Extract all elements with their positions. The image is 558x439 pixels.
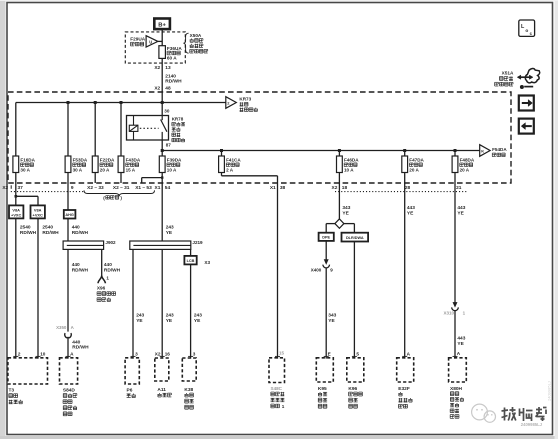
label F43DA [126, 157, 141, 172]
wire F47DA to pin 28 [404, 173, 406, 183]
dotted connector line left [11, 191, 84, 193]
X80H pin A [453, 351, 461, 357]
svg-text:443: 443 [457, 205, 465, 211]
watermark logo circles [472, 404, 496, 422]
svg-text:J902: J902 [105, 240, 116, 245]
wire label 440 RD/WH (3) [72, 340, 89, 351]
svg-text:243: 243 [136, 313, 144, 319]
fuse F16DA 30 A [13, 156, 19, 173]
wire J902 to seat switch [67, 249, 69, 331]
svg-text:YE: YE [194, 318, 201, 324]
svg-text:F43DA: F43DA [126, 157, 141, 162]
wire splice to DLR [344, 224, 355, 233]
svg-text:X400: X400 [311, 268, 322, 273]
blower amplifier T3 (dashed box) [8, 358, 48, 384]
wire drop to F46DA [338, 151, 340, 157]
E32F pin A [402, 351, 410, 356]
svg-text:AHG: AHG [65, 213, 73, 217]
svg-text:YE: YE [407, 210, 414, 216]
wire F22DA to pin X2-33 [94, 173, 96, 183]
label K95 [318, 386, 327, 408]
svg-text:440: 440 [104, 262, 112, 268]
connector X2 pin 31 (unused) [113, 185, 130, 191]
LOC legend icon [519, 20, 535, 36]
label J219 [192, 240, 203, 245]
cigar lighter socket E32F (dashed box) [397, 358, 414, 382]
wire label 243 YE (P6) [136, 313, 144, 324]
svg-text:F48DA: F48DA [460, 157, 475, 162]
label F46DA [344, 157, 359, 172]
svg-text:+VXC: +VXC [33, 213, 43, 218]
K95 pin E [324, 351, 331, 356]
P6 pin 3 [131, 351, 139, 356]
svg-text:10 A: 10 A [167, 168, 177, 173]
label KR73 [239, 97, 257, 112]
svg-text:1: 1 [282, 404, 285, 409]
svg-text:S48C: S48C [271, 386, 283, 391]
label F16DA [20, 157, 35, 172]
junction dots on accessory bus [161, 149, 457, 152]
label K38 [184, 387, 193, 409]
svg-text:X1 – 53: X1 – 53 [135, 185, 152, 191]
wire J902 to X96 [101, 249, 103, 276]
fuse block X51A (large dashed box) [8, 92, 511, 183]
A11 pin X2 16 [155, 351, 171, 356]
svg-text:30 A: 30 A [20, 168, 30, 173]
fuse F48DA 20 A [452, 156, 458, 173]
wire splice to DPE [326, 224, 335, 233]
svg-text:B+: B+ [158, 22, 166, 28]
svg-text:DLR/DWA: DLR/DWA [346, 236, 364, 240]
K38 pin 3 [188, 351, 196, 356]
wire DPE to X400 [325, 241, 327, 260]
brace unused pins [84, 190, 155, 196]
wire label 440 RD/WH (2) [72, 262, 89, 273]
svg-text:X2: X2 [155, 351, 161, 356]
wire AHG to J902 [67, 219, 69, 242]
wire X400 to K95 [325, 268, 327, 359]
svg-text:T3: T3 [9, 387, 15, 393]
fuse F22DA 20 A [92, 156, 98, 173]
wire label 440 RD/WH (4) [104, 262, 121, 273]
svg-text:37: 37 [18, 185, 24, 191]
fusible link F29UA [146, 36, 162, 47]
label F54DA [492, 147, 507, 157]
wire drop to F53DA [67, 103, 69, 157]
fuse F53DA 30 A [65, 156, 71, 173]
off-page arrow left (box) [519, 119, 534, 134]
svg-text:X2: X2 [332, 185, 338, 191]
label F41CA [226, 157, 241, 172]
svg-text:16: 16 [165, 351, 171, 356]
terminal DPE [319, 233, 334, 241]
svg-text:F22DA: F22DA [100, 157, 115, 162]
svg-text:YE: YE [166, 230, 173, 236]
label F39DA [167, 157, 182, 172]
svg-text:F46DA: F46DA [344, 157, 359, 162]
fuse F36UA 60A [159, 46, 166, 59]
splice pack J219 [130, 241, 191, 249]
svg-text:X50A: X50A [190, 33, 202, 38]
connector X96 fork pin 1 [98, 276, 110, 284]
label S48C [271, 386, 285, 409]
svg-text:YE: YE [136, 318, 143, 324]
svg-text:P6: P6 [127, 387, 133, 393]
svg-text:X2: X2 [2, 185, 8, 191]
svg-text:K: K [481, 148, 484, 153]
svg-text:343: 343 [342, 205, 350, 211]
svg-text:X2: X2 [154, 85, 160, 91]
svg-text:U: U [149, 40, 152, 45]
wire label 343 YE [342, 205, 350, 216]
T3 pin 2 [13, 351, 21, 356]
svg-text:RD/WH: RD/WH [20, 230, 37, 236]
label J902 [105, 240, 116, 245]
svg-text:YE: YE [457, 210, 464, 216]
wire drop to F43DA [120, 103, 122, 157]
wire pin28 to E32F [404, 183, 406, 359]
wire label 243 YE (A11) [166, 313, 174, 324]
svg-text:F36UA: F36UA [167, 46, 182, 51]
label X50A engine compartment fuse block [190, 33, 208, 53]
accessory bus wire [162, 150, 480, 152]
svg-text:443: 443 [407, 205, 415, 211]
label X80H [450, 386, 464, 419]
svg-text:YE: YE [328, 318, 335, 324]
svg-text:2140: 2140 [165, 74, 176, 80]
svg-text:20 A: 20 A [460, 168, 470, 173]
fusible link F54DA (triangle) [480, 145, 490, 157]
svg-text:2540: 2540 [20, 225, 31, 231]
svg-text:440: 440 [72, 262, 80, 268]
svg-text:243: 243 [166, 313, 174, 319]
svg-text:F41CA: F41CA [226, 157, 241, 162]
sunroof control module K95 (dashed box) [316, 358, 333, 382]
label X3 [204, 260, 210, 265]
wire drop to F47DA [404, 151, 406, 157]
wire F41CA jog to pin 38 [222, 173, 278, 183]
label (unused) [103, 195, 122, 200]
wire drop to F22DA [94, 103, 96, 157]
diagram number [521, 422, 543, 427]
svg-text:9: 9 [71, 185, 74, 191]
svg-text:38: 38 [280, 185, 286, 191]
console accessory power socket X80H (dashed box) [449, 358, 467, 382]
K96 pin 5 [352, 351, 360, 356]
svg-text:2409985LJ: 2409985LJ [547, 381, 552, 401]
wire label 2140 RD/WH [165, 74, 182, 85]
svg-text:RD/WH: RD/WH [42, 230, 59, 236]
svg-text:20 A: 20 A [409, 168, 419, 173]
fuse F47DA 20 A [402, 156, 408, 173]
svg-text:KR73: KR73 [239, 97, 251, 102]
fuse block X50A (dashed box) [125, 32, 185, 63]
wire 2540 RD/WH to T3 pin 2 [15, 218, 17, 358]
svg-text:X350: X350 [56, 325, 67, 330]
svg-text:LCB: LCB [187, 259, 195, 263]
navigation control module K38 (dashed box) [182, 358, 196, 381]
svg-text:X1: X1 [270, 185, 276, 191]
watermark text jishibang [502, 407, 547, 421]
wire label 443 YE [407, 205, 415, 216]
wire label 443 YE (2) [457, 205, 465, 216]
svg-text:K96: K96 [348, 386, 357, 392]
svg-text:21: 21 [456, 185, 462, 191]
wire pin9 to AHG [67, 183, 69, 210]
label P6 [127, 387, 136, 397]
wire label 2540 RD/WH [20, 225, 37, 236]
relay KR78 retained accessory power relay [127, 116, 169, 141]
svg-text:87: 87 [166, 143, 172, 148]
svg-text:F53DA: F53DA [73, 157, 88, 162]
wire 2540 RD/WH to T3 pin 10 [37, 218, 39, 358]
wire F46DA to pin 18 [338, 173, 340, 183]
label X51A instrument panel fuse block [495, 71, 514, 86]
wire pin54 to J219 [161, 183, 163, 241]
svg-text:X2: X2 [154, 65, 160, 71]
wire F16DA to pin 37 [15, 173, 17, 183]
fuse F39DA 10 A [159, 156, 165, 173]
svg-text:15 A: 15 A [126, 168, 136, 173]
svg-text:DPE: DPE [322, 236, 330, 240]
connector X2 pin 48 [154, 85, 171, 91]
S84D pin A [66, 351, 75, 356]
wire F53DA to pin 9 [67, 173, 69, 183]
wire F39DA to pins 53/54 [142, 173, 164, 183]
wire J219 to LCB [190, 249, 192, 256]
T3 pin 10 [36, 351, 46, 356]
svg-text:J219: J219 [192, 240, 203, 245]
page-link scribble icon [517, 68, 539, 89]
svg-text:60 A: 60 A [167, 56, 177, 61]
wire F43DA to pin X2-31 [120, 173, 122, 183]
terminal V8A +VXC (2) [31, 205, 45, 218]
connector pin 21 [456, 185, 462, 191]
wire pin21 to X310 [454, 183, 456, 303]
svg-text:S84D: S84D [63, 387, 76, 393]
svg-text:343: 343 [328, 313, 336, 319]
label F36UA 60A [167, 46, 182, 61]
connector X1 pin 53 (unused) [135, 185, 152, 191]
svg-text:10: 10 [40, 351, 46, 356]
radio A11 (dashed box) [155, 358, 169, 381]
svg-text:F39DA: F39DA [167, 157, 182, 162]
wire J219 to clock P6 [132, 249, 134, 358]
wire label 243 YE (K38) [194, 313, 202, 324]
connector X1 pin 54 [155, 185, 171, 191]
svg-text:E32F: E32F [398, 386, 410, 392]
svg-text:X3: X3 [204, 260, 210, 265]
wire label 243 YE [166, 225, 174, 236]
svg-text:F54DA: F54DA [492, 147, 507, 152]
label S84D [63, 387, 77, 415]
svg-text:RD/WH: RD/WH [72, 267, 89, 273]
label F47DA [409, 157, 424, 172]
clock P6 (dashed box) [125, 358, 139, 384]
svg-text:243: 243 [166, 225, 174, 231]
svg-text:RD/WH: RD/WH [104, 267, 121, 273]
splice diamond [335, 219, 344, 228]
svg-text:K95: K95 [318, 386, 327, 392]
terminal V8A +VXC (1) [9, 205, 23, 218]
wire DLR to K96 [353, 242, 355, 359]
fuse F46DA 10 A [337, 156, 343, 173]
svg-text:30 A: 30 A [73, 168, 83, 173]
svg-text:F47DA: F47DA [409, 157, 424, 162]
wire to S84D pin A [67, 339, 69, 359]
connector X1 pin 38 [270, 185, 286, 191]
svg-text:X51A: X51A [502, 71, 514, 76]
svg-text:18: 18 [342, 185, 348, 191]
label X96 power seat connector [97, 285, 116, 301]
svg-text:F16DA: F16DA [20, 157, 35, 162]
wire J219 to radio A11 [161, 249, 163, 358]
connector X2 pin 18 [332, 185, 348, 191]
label F53DA [73, 157, 88, 172]
label T3 [9, 387, 23, 404]
wire X310 to X80H [454, 311, 456, 359]
driver seat adjuster switch S84D (dashed box) [60, 358, 78, 384]
splice pack J902 [63, 241, 104, 249]
label KR78 [172, 117, 185, 142]
label E32F [398, 386, 412, 408]
svg-text:X1: X1 [155, 185, 161, 191]
terminal LCB [184, 256, 196, 265]
svg-text:YE: YE [342, 210, 349, 216]
junction dots on top bus [67, 101, 164, 104]
in-line connector X400 pin 9 [311, 260, 334, 273]
mirror control module K96 (dashed box) [347, 358, 364, 382]
wire label 443 YE (3) [457, 336, 465, 347]
wire pin38 to S48C [277, 183, 279, 359]
wire relay 87 to bus [161, 140, 163, 156]
wire drop to F41CA [221, 151, 223, 157]
svg-text:A: A [457, 351, 461, 356]
relay KR73 ignition main relay (triangle) [226, 97, 237, 109]
relay KR78 pin 30 [164, 109, 170, 114]
svg-text:2 A: 2 A [226, 168, 234, 173]
svg-text:RD/WH: RD/WH [72, 345, 89, 351]
svg-text:30: 30 [164, 109, 170, 114]
svg-text:3: 3 [193, 351, 196, 356]
terminal DLR/DWA [342, 233, 369, 242]
battery terminal B+ [154, 19, 170, 30]
label F48DA [460, 157, 475, 172]
svg-text:YE: YE [166, 318, 173, 324]
bus wire from ignition feed [16, 103, 226, 157]
svg-text:48: 48 [165, 85, 171, 91]
wire label 2540 RD/WH (2) [42, 225, 59, 236]
svg-text:E: E [328, 351, 331, 356]
svg-text:A11: A11 [157, 387, 166, 393]
svg-text:X2 – 33: X2 – 33 [87, 185, 104, 191]
svg-text:X310: X310 [443, 311, 454, 316]
diagram number vertical [547, 381, 552, 401]
wire pin18 to splice [338, 183, 340, 219]
connector pin 9 [71, 185, 74, 191]
wire F48DA to pin 21 [454, 173, 456, 183]
off-page arrow right (box) [519, 96, 534, 111]
wire pin37 to V8A taps [15, 183, 39, 205]
svg-text:15: 15 [279, 351, 285, 356]
label F29UA [130, 36, 145, 46]
wire LCB to nav module [190, 264, 192, 358]
label F22DA [100, 157, 115, 172]
label A11 [157, 387, 171, 397]
svg-text:10 A: 10 A [344, 168, 354, 173]
IP multifunction switch S48C (dashed box) [269, 358, 285, 383]
connector X2 pin 33 (unused) [87, 185, 104, 191]
dotted connector line right [335, 191, 468, 193]
svg-text:2540: 2540 [42, 225, 53, 231]
svg-text:X80H: X80H [450, 386, 463, 392]
svg-text:54: 54 [165, 185, 171, 191]
svg-text:2: 2 [18, 351, 21, 356]
in-line connector X310 pin 1 [443, 303, 465, 316]
svg-text:F29UA: F29UA [130, 36, 145, 41]
relay KR78 pin 87 [166, 143, 172, 148]
svg-text:KR78: KR78 [172, 117, 184, 122]
connector pin 28 [405, 185, 411, 191]
svg-text:o: o [525, 29, 528, 34]
connector X2 pin 37 [2, 185, 23, 191]
fuse F41CA 2 A [219, 156, 225, 173]
svg-text:440: 440 [72, 225, 80, 231]
svg-text:13: 13 [165, 65, 171, 71]
svg-text:X2 – 31: X2 – 31 [113, 185, 130, 191]
wire B+ to fuse block [161, 29, 163, 116]
svg-text:RD/WH: RD/WH [72, 230, 89, 236]
terminal AHG [64, 210, 76, 219]
svg-text:+VXC: +VXC [11, 213, 21, 218]
svg-text:X96: X96 [97, 285, 106, 290]
S48C pin 15 [275, 351, 285, 357]
svg-text:5: 5 [356, 351, 359, 356]
in-line connector X350 pin A [56, 325, 74, 338]
svg-text:2409985LJ: 2409985LJ [521, 422, 543, 427]
svg-text:1: 1 [106, 276, 109, 281]
svg-text:K38: K38 [184, 387, 193, 393]
svg-text:RD/WH: RD/WH [165, 79, 182, 85]
svg-text:20 A: 20 A [100, 168, 110, 173]
wire label 343 YE (K95) [328, 313, 336, 324]
fuse F43DA 15 A [118, 156, 124, 173]
wire label 440 RD/WH [72, 225, 89, 236]
wire drop to F48DA [454, 151, 456, 157]
svg-text:243: 243 [194, 313, 202, 319]
svg-text:440: 440 [72, 340, 80, 346]
svg-text:443: 443 [457, 336, 465, 342]
brace for X50A [183, 33, 188, 53]
connector X2 pin 13 [154, 65, 171, 71]
label K96 [348, 386, 362, 408]
svg-text:YE: YE [457, 341, 464, 347]
svg-text:28: 28 [405, 185, 411, 191]
svg-text:3: 3 [135, 351, 138, 356]
